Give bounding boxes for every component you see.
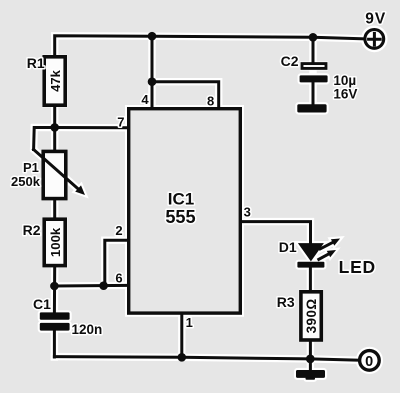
svg-text:6: 6 bbox=[115, 270, 122, 285]
wire R1 to P1 bbox=[53, 105, 56, 152]
node junction pin4 / pin8 link bbox=[148, 77, 157, 86]
node junction top rail / C2 branch bbox=[309, 33, 318, 42]
resistor R1 bbox=[44, 57, 65, 105]
wire P1 wiper feed bbox=[34, 128, 55, 150]
svg-text:7: 7 bbox=[117, 115, 124, 130]
capacitor C2 positive plate bbox=[302, 64, 326, 69]
wire pin4 riser from top rail down to IC bbox=[151, 36, 154, 107]
svg-text:2: 2 bbox=[115, 223, 122, 238]
node junction bottom rail / R3 branch bbox=[306, 355, 315, 364]
wire LED to R3 bbox=[309, 267, 312, 292]
capacitor C1 plate bottom bbox=[40, 323, 70, 331]
diode D1 cathode bar bbox=[297, 262, 324, 268]
svg-text:4: 4 bbox=[141, 92, 149, 107]
capacitor C2 negative plate bbox=[300, 75, 328, 82]
svg-text:9V: 9V bbox=[365, 10, 386, 27]
svg-text:R3: R3 bbox=[277, 294, 295, 310]
wire pin4 to pin8 link bbox=[152, 82, 219, 108]
svg-text:D1: D1 bbox=[279, 239, 297, 255]
wire pin2 loop bbox=[105, 240, 127, 286]
terminal 9V positive bbox=[365, 30, 384, 49]
wire R2 down to C1 node bbox=[53, 266, 56, 313]
wire bottom ground rail bbox=[54, 357, 359, 361]
node junction top rail / pin4 riser bbox=[148, 32, 157, 41]
svg-text:555: 555 bbox=[165, 207, 195, 227]
svg-text:47k: 47k bbox=[48, 69, 63, 91]
wire pin7 stub bbox=[55, 126, 128, 129]
ground bar bottom right bbox=[296, 370, 325, 380]
potentiometer P1 wiper arrow bbox=[34, 150, 85, 196]
capacitor C1 plate top bbox=[40, 312, 70, 319]
wire pin6 stub bbox=[54, 284, 127, 288]
diode D1 LED triangle bbox=[298, 243, 324, 261]
svg-text:R2: R2 bbox=[23, 222, 41, 238]
svg-text:120n: 120n bbox=[72, 322, 103, 337]
svg-text:C2: C2 bbox=[281, 53, 299, 69]
wire top positive rail from R1 to 9V terminal bbox=[55, 36, 364, 58]
wire R3 to bottom rail and ground bar bbox=[309, 340, 312, 370]
svg-text:390Ω: 390Ω bbox=[304, 298, 319, 333]
resistor R3 bbox=[301, 292, 321, 340]
svg-text:R1: R1 bbox=[27, 55, 45, 71]
node junction R2 / C1 / pin6 bbox=[50, 282, 59, 291]
svg-text:IC1: IC1 bbox=[168, 189, 194, 208]
wire C2 to ground bar bbox=[312, 82, 315, 105]
svg-text:250k: 250k bbox=[11, 174, 41, 189]
node junction pin2 / pin6 bbox=[99, 281, 108, 290]
svg-text:LED: LED bbox=[339, 257, 376, 277]
svg-text:100k: 100k bbox=[48, 227, 63, 257]
svg-text:3: 3 bbox=[244, 205, 251, 220]
wire C2 branch riser bbox=[312, 37, 315, 63]
node junction R1 / P1 / pin7 / wiper bbox=[50, 123, 59, 132]
svg-text:8: 8 bbox=[207, 94, 214, 109]
wire pin3 to LED bbox=[241, 222, 311, 244]
wire pin1 riser bbox=[180, 314, 183, 357]
svg-text:1: 1 bbox=[186, 315, 193, 330]
IC U1 555 timer box bbox=[129, 109, 241, 313]
node junction bottom rail / pin1 bbox=[178, 353, 187, 362]
terminal 0 bbox=[360, 351, 380, 371]
resistor R2 bbox=[44, 219, 65, 265]
svg-text:C1: C1 bbox=[33, 296, 51, 312]
ground bar under C2 bbox=[297, 104, 326, 112]
wire P1 to R2 bbox=[53, 199, 56, 220]
wire C1 to bottom rail bbox=[53, 331, 56, 357]
svg-text:0: 0 bbox=[365, 354, 373, 370]
potentiometer P1 body bbox=[43, 151, 66, 198]
svg-text:P1: P1 bbox=[23, 160, 39, 175]
LED emission arrow upper bbox=[320, 239, 340, 249]
svg-text:16V: 16V bbox=[333, 86, 357, 101]
LED emission arrow lower bbox=[319, 250, 336, 259]
